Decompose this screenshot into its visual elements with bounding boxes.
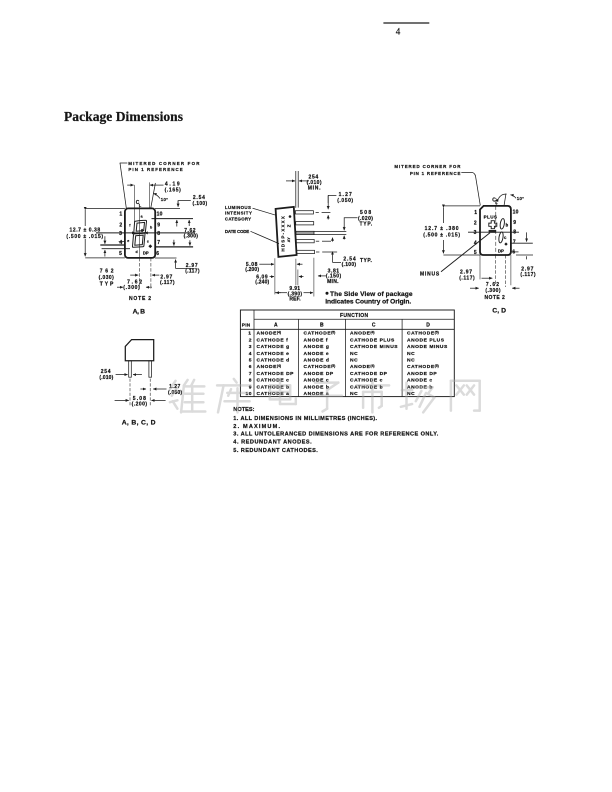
svg-text:CATHODE(5): CATHODE(5) [304, 364, 336, 370]
svg-text:NC: NC [350, 391, 358, 397]
svg-text:CATHODE c: CATHODE c [350, 378, 383, 384]
svg-text:(.300): (.300) [184, 233, 199, 239]
svg-text:MINUS: MINUS [420, 271, 440, 277]
svg-text:D: D [426, 322, 430, 328]
svg-text:NC: NC [350, 358, 358, 364]
svg-text:7: 7 [249, 371, 252, 377]
svg-text:6: 6 [156, 251, 159, 257]
svg-text:MITERED CORNER FOR: MITERED CORNER FOR [394, 164, 461, 169]
svg-text:ANODE d: ANODE d [304, 358, 330, 364]
svg-text:INTENSITY: INTENSITY [225, 211, 252, 216]
svg-text:ANODE PLUS: ANODE PLUS [407, 337, 445, 343]
svg-text:HDSP-XXXX: HDSP-XXXX [280, 216, 285, 252]
svg-text:7: 7 [157, 240, 160, 246]
svg-text:8: 8 [249, 378, 252, 384]
svg-text:b: b [506, 222, 509, 227]
svg-text:3: 3 [119, 231, 122, 237]
svg-text:MITERED CORNER FOR: MITERED CORNER FOR [128, 161, 200, 166]
svg-text:Package Dimensions: Package Dimensions [64, 109, 183, 124]
svg-text:CATHODE MINUS: CATHODE MINUS [350, 344, 398, 350]
svg-text:CATHODE PLUS: CATHODE PLUS [350, 337, 395, 343]
svg-text:8: 8 [513, 230, 516, 236]
svg-text:762: 762 [100, 269, 114, 275]
svg-text:4: 4 [119, 240, 122, 246]
svg-text:4. REDUNDANT ANODES.: 4. REDUNDANT ANODES. [233, 440, 312, 446]
svg-text:2. MAXIMUM.: 2. MAXIMUM. [233, 424, 280, 430]
svg-text:A: A [274, 322, 278, 328]
svg-text:12.7 ± .380: 12.7 ± .380 [425, 226, 459, 232]
svg-text:d: d [136, 250, 138, 254]
svg-text:6: 6 [249, 364, 252, 370]
svg-text:(.300): (.300) [123, 285, 140, 291]
svg-text:4: 4 [396, 26, 401, 36]
svg-text:PIN 1 REFERENCE: PIN 1 REFERENCE [410, 171, 461, 176]
svg-text:2: 2 [474, 220, 477, 226]
svg-text:NC: NC [407, 358, 415, 364]
svg-text:A, B, C, D: A, B, C, D [122, 419, 157, 426]
svg-text:L: L [495, 200, 498, 205]
svg-text:2: 2 [249, 337, 252, 343]
svg-text:ANODE c: ANODE c [407, 378, 433, 384]
svg-text:NC: NC [407, 391, 415, 397]
svg-text:10°: 10° [161, 197, 168, 202]
svg-text:e: e [127, 239, 129, 243]
svg-text:1: 1 [248, 331, 251, 337]
svg-text:g: g [141, 228, 143, 232]
svg-text:PLUS: PLUS [484, 215, 498, 220]
svg-text:10°: 10° [517, 196, 524, 201]
svg-text:b: b [150, 225, 153, 229]
svg-text:CATHODE e: CATHODE e [257, 351, 290, 357]
svg-text:3: 3 [474, 230, 477, 236]
svg-text:CATEGORY: CATEGORY [225, 216, 251, 221]
svg-text:4: 4 [249, 351, 252, 357]
svg-text:7: 7 [513, 240, 516, 246]
svg-text:2: 2 [119, 222, 122, 228]
svg-text:NOTE 2: NOTE 2 [129, 296, 151, 302]
svg-text:DP: DP [143, 251, 149, 256]
svg-text:(.030): (.030) [99, 275, 115, 281]
svg-text:(.300): (.300) [485, 288, 500, 294]
svg-text:CATHODE f: CATHODE f [257, 337, 289, 343]
svg-text:AY: AY [287, 237, 291, 242]
svg-text:ANODE e: ANODE e [304, 351, 330, 357]
svg-text:6: 6 [512, 250, 515, 256]
svg-text:1. ALL DIMENSIONS IN MILLIMETR: 1. ALL DIMENSIONS IN MILLIMETRES (INCHES… [233, 416, 377, 422]
svg-text:5: 5 [249, 358, 252, 364]
svg-text:(.240): (.240) [255, 280, 269, 286]
svg-text:Z: Z [286, 224, 291, 227]
svg-text:B: B [320, 322, 324, 328]
svg-text:9: 9 [513, 220, 516, 226]
svg-text:10: 10 [157, 212, 163, 218]
svg-text:DATE CODE: DATE CODE [225, 229, 250, 234]
svg-text:CATHODE DP: CATHODE DP [257, 371, 295, 377]
svg-text:C, D: C, D [492, 308, 507, 315]
svg-text:TYP.: TYP. [360, 221, 373, 227]
svg-text:CATHODE g: CATHODE g [257, 344, 290, 350]
svg-text:(.050): (.050) [337, 198, 353, 204]
svg-text:REF.: REF. [289, 296, 301, 302]
svg-text:ANODE(4): ANODE(4) [257, 331, 282, 337]
svg-text:(.200): (.200) [245, 267, 259, 273]
svg-text:ANODE f: ANODE f [304, 337, 329, 343]
svg-text:PIN 1 REFERENCE: PIN 1 REFERENCE [128, 167, 183, 172]
svg-text:ANODE(4): ANODE(4) [257, 364, 282, 370]
svg-text:CATHODE c: CATHODE c [257, 378, 290, 384]
svg-text:CATHODE(5): CATHODE(5) [304, 331, 336, 337]
svg-text:LUMINOUS: LUMINOUS [225, 205, 251, 210]
svg-text:1: 1 [474, 210, 477, 216]
svg-text:MIN.: MIN. [327, 279, 339, 285]
svg-text:12.7 ± 0.38: 12.7 ± 0.38 [70, 227, 101, 233]
svg-text:MIN.: MIN. [308, 186, 321, 192]
svg-text:3. ALL UNTOLERANCED DIMENSIONS: 3. ALL UNTOLERANCED DIMENSIONS ARE FOR R… [233, 432, 438, 438]
svg-text:a: a [141, 215, 144, 219]
svg-text:NC: NC [350, 351, 358, 357]
svg-text:NOTE 2: NOTE 2 [485, 295, 506, 301]
svg-text:CATHODE(5): CATHODE(5) [407, 364, 439, 370]
svg-text:TYP: TYP [100, 281, 114, 287]
svg-text:ANODE(4): ANODE(4) [350, 331, 375, 337]
svg-text:ANODE g: ANODE g [304, 344, 330, 350]
svg-text:L: L [139, 203, 142, 208]
svg-text:3: 3 [249, 344, 252, 350]
svg-text:TYP.: TYP. [360, 258, 372, 264]
svg-text:(.500 ± .015): (.500 ± .015) [66, 234, 103, 240]
svg-text:ANODE DP: ANODE DP [407, 371, 437, 377]
svg-text:ANODE MINUS: ANODE MINUS [407, 344, 448, 350]
svg-text:(.165): (.165) [165, 187, 182, 193]
svg-text:5. REDUNDANT CATHODES.: 5. REDUNDANT CATHODES. [233, 448, 318, 454]
svg-text:C: C [372, 322, 376, 328]
svg-text:(.117): (.117) [459, 276, 475, 282]
svg-text:9: 9 [157, 222, 160, 228]
svg-text:(.010): (.010) [99, 375, 113, 381]
svg-text:CATHODE d: CATHODE d [257, 358, 290, 364]
svg-text:(.500 ± .015): (.500 ± .015) [423, 233, 460, 239]
svg-text:(.117): (.117) [185, 268, 200, 274]
svg-text:CATHODE DP: CATHODE DP [350, 371, 388, 377]
svg-text:The Side View of package: The Side View of package [330, 291, 413, 298]
svg-text:1: 1 [119, 212, 122, 218]
svg-text:CATHODE(5): CATHODE(5) [407, 331, 439, 337]
svg-text:ANODE(4): ANODE(4) [350, 364, 375, 370]
svg-text:ANODE b: ANODE b [304, 384, 330, 390]
svg-text:indicates Country of Origin.: indicates Country of Origin. [325, 299, 411, 306]
svg-text:PIN: PIN [242, 322, 251, 328]
svg-text:NC: NC [407, 351, 415, 357]
svg-text:FUNCTION: FUNCTION [340, 313, 369, 319]
svg-text:10: 10 [513, 210, 519, 216]
svg-text:(.117): (.117) [160, 280, 175, 286]
svg-text:c: c [504, 235, 507, 240]
svg-text:(.100): (.100) [193, 201, 208, 207]
svg-text:5: 5 [119, 251, 122, 257]
svg-text:f: f [129, 223, 131, 227]
svg-text:(.200): (.200) [132, 402, 148, 408]
svg-text:DP: DP [498, 249, 504, 254]
svg-text:8: 8 [157, 231, 160, 237]
svg-text:c: c [147, 240, 149, 244]
svg-text:ANODE DP: ANODE DP [304, 371, 334, 377]
svg-text:(.100): (.100) [342, 262, 357, 268]
svg-text:A, B: A, B [133, 308, 146, 315]
svg-text:(.117): (.117) [520, 272, 535, 278]
